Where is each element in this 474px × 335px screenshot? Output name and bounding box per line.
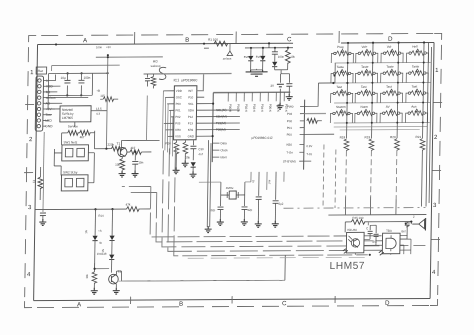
wire inner-top supply rail [38,42,434,44]
svg-text:P00: P00 [287,133,293,137]
svg-text:P04-K: P04-K [260,104,264,112]
ground G9 [205,226,212,232]
wire bus shadow [188,256,368,259]
svg-text:Flat: Flat [38,69,43,73]
resistor R1 on top rail [208,38,228,47]
svg-text:10k: 10k [85,274,89,279]
node matrix junction r2c0 [346,102,348,104]
svg-text:GND: GND [188,134,194,138]
resistor R11 [183,140,188,160]
svg-text:T1: T1 [116,142,120,146]
svg-text:10k: 10k [290,55,295,59]
ground G15 [91,288,98,294]
wire long drop to gnd [207,140,211,227]
ground G7 [182,160,189,166]
svg-text:ST-BY(M): ST-BY(M) [283,159,296,163]
wire bus line 1 [121,185,412,237]
ground G12 [255,221,262,227]
svg-text:220k: 220k [107,143,114,147]
svg-text:Tast: Tast [361,85,367,89]
svg-text:5V6: 5V6 [256,55,262,59]
node matrix junction r2c2 [397,102,399,104]
switch S13 Stumm [330,105,352,123]
wire bus line 3 [162,149,427,247]
wire bus stubs [212,143,219,157]
capacitor C12 [400,222,410,240]
ground G6 [173,167,180,173]
svg-text:C: C [287,36,292,43]
resistor R12 [125,203,139,212]
switch S7 Taste3 [381,65,403,83]
svg-text:Tast: Tast [386,85,392,89]
svg-text:Aus: Aus [411,105,417,109]
ground G18 [379,251,384,256]
svg-text:Vol+: Vol+ [361,45,367,49]
wire IC1 right pins [196,97,240,136]
wire y64 branch [52,65,120,71]
svg-text:Data: Data [220,141,227,145]
wire IC1 left pins [163,91,175,137]
node matrix junction r1c2 [397,82,399,84]
svg-text:P21(M): P21(M) [216,121,226,125]
svg-text:D: D [388,36,393,43]
svg-text:4k7: 4k7 [267,180,271,185]
wire T1 nets [94,130,159,148]
svg-text:Ident: Ident [220,155,227,159]
svg-text:R19: R19 [365,135,371,139]
svg-text:4MHz: 4MHz [226,186,234,190]
wire Q2 base [95,263,110,269]
diode D5 [84,209,98,263]
svg-text:P01: P01 [287,126,293,130]
switch S14 Norm [355,105,377,123]
node matrix junction r3c1 [371,122,373,124]
svg-text:R18: R18 [340,135,346,139]
wire ir block nets [355,222,411,255]
svg-text:P02-K: P02-K [244,104,248,112]
ground G3 [246,70,268,77]
svg-text:Taste: Taste [361,65,369,69]
svg-text:SW1 Netz: SW1 Netz [64,140,78,144]
svg-text:T-01: T-01 [306,152,312,156]
wire base rail y208 [35,208,150,211]
svg-text:D: D [385,300,390,307]
svg-text:SDA: SDA [188,108,194,112]
wire key matrix feed [318,82,335,84]
svg-text:PW0: PW0 [287,105,294,109]
node matrix junction r1c3 [422,82,424,84]
svg-text:C: C [282,300,287,307]
ground G17 [343,249,348,254]
amplifier U3 [382,229,400,254]
node matrix junction r3c2 [396,122,398,124]
svg-text:10µ: 10µ [185,155,190,159]
wire CN1 pin nets [43,74,89,126]
ground G11 [241,219,248,225]
ground G13 [272,221,279,227]
svg-text:1N: 1N [84,230,88,234]
pin 5 stub riser [143,74,231,91]
ground G8 [189,171,196,177]
resistor R4 [80,130,91,139]
svg-text:Tast: Tast [336,85,342,89]
svg-text:47k: 47k [126,203,131,207]
node matrix junction r2c3 [422,102,424,104]
svg-text:Taste: Taste [412,65,420,69]
transistor T1 [116,142,127,157]
svg-text:SDA(M): SDA(M) [216,115,227,119]
wire dashed risers [322,145,325,209]
svg-text:Hell: Hell [412,45,418,49]
transistor Q2 [109,270,122,285]
svg-text:Stumm: Stumm [336,105,346,109]
svg-text:0.9V: 0.9V [306,144,312,148]
capacitor C1 10u [60,73,70,95]
crystal Q1 4MHz [221,186,245,199]
ground G10 [217,219,224,225]
diode D1 zener [244,48,254,70]
switch S4 Hell [406,44,428,62]
wire x147 drop [146,95,149,140]
regulator U5 Netzteil box [60,106,91,122]
wire opto nets [54,149,95,183]
resistor R15 [151,74,156,89]
wire inner-bottom rail [34,298,430,300]
svg-text:P02: P02 [175,115,181,119]
switch S6 Taste2 [355,65,377,83]
switch S10 Tast 6 [355,85,377,103]
svg-text:P03: P03 [175,121,181,125]
wire ir top rail [345,222,412,233]
svg-text:1N4148: 1N4148 [97,252,107,256]
switch S5 Taste1 [331,65,353,83]
resistor R9 [115,157,125,171]
capacitor C13 [366,225,373,239]
wire matrix bottom returns [334,127,428,130]
switch S3 Vol- [381,45,403,63]
wire misc verticals [251,172,284,190]
svg-text:B: B [179,301,183,308]
diode D4 [190,162,195,172]
svg-text:OSC: OSC [176,95,182,99]
svg-text:an/aus: an/aus [223,57,232,61]
wire right solid return [328,214,426,217]
svg-text:Taste: Taste [337,65,345,69]
resistor R2 [285,48,295,70]
svg-text:P10: P10 [188,95,194,99]
wire crystal risers [221,182,245,206]
capacitor C10 [272,172,284,222]
jumper S-curl [159,67,166,79]
switch S9 Tast 5 [331,85,353,103]
diode D6 [109,209,115,255]
capacitor C8 [241,207,252,220]
node matrix junction r1c1 [371,82,373,84]
svg-text:4k7: 4k7 [80,135,85,139]
resistor R7 [106,143,122,151]
svg-text:+B: +B [96,89,100,93]
svg-text:P00: P00 [176,102,182,106]
capacitor C2 100n [78,73,90,95]
resistor R13 [85,263,97,289]
node A arrow marker [223,44,233,61]
wire matrix rows [335,61,431,64]
svg-text:P12: P12 [188,115,194,119]
svg-text:µPD1986C-012: µPD1986C-012 [252,136,273,140]
svg-text:+5V: +5V [106,45,111,49]
ground G14 [39,219,46,225]
optocoupler U7 [61,170,88,191]
switch S12 Tast 8 [406,84,428,102]
wire top-left rail [48,73,107,95]
svg-text:IC1: IC1 [173,78,179,82]
wire zener bottoms [251,69,290,74]
wire inner-left rail [34,45,38,301]
wire right bus vertical [212,93,213,163]
svg-text:22p: 22p [210,208,215,212]
svg-text:Service: Service [68,124,79,128]
resistor R19 [364,135,374,150]
svg-text:LHM57: LHM57 [330,261,366,272]
svg-text:C30: C30 [198,147,204,151]
svg-text:+A: +A [98,229,102,233]
svg-text:GND: GND [45,124,53,128]
svg-text:SCL(M): SCL(M) [216,108,227,112]
svg-text:4n7: 4n7 [198,152,203,156]
optocoupler U6 [62,140,89,161]
svg-text:T-On: T-On [286,151,293,155]
svg-text:100n: 100n [83,76,90,80]
svg-text:Clock: Clock [220,148,228,152]
svg-text:Tast: Tast [412,85,418,89]
svg-text:IS1U60: IS1U60 [347,228,357,232]
wire mid rail y56 [94,57,162,149]
svg-text:B: B [185,37,189,44]
resistor R16 [100,94,118,102]
op-amp U1 microcontroller IC1 [173,78,199,140]
node matrix junction r0c3 [423,62,425,64]
capacitor C5 [132,152,144,171]
node matrix junction r3c0 [346,122,348,124]
wire Q2 collector run [116,255,285,281]
svg-text:4.3: 4.3 [96,112,100,116]
svg-text:10k: 10k [115,163,120,167]
svg-text:C: C [366,226,368,230]
svg-text:5V6: 5V6 [244,55,250,59]
ground G16 [113,288,120,294]
svg-text:R21: R21 [416,135,422,139]
svg-text:10n: 10n [138,160,143,164]
svg-text:SW2 St.by: SW2 St.by [63,170,78,174]
wire matrix columns [347,43,348,127]
switch S1 Prog [331,45,353,63]
capacitor C14 [372,225,379,243]
svg-text:4k7: 4k7 [130,146,135,150]
wire osc feed [199,181,251,183]
svg-text:Norm: Norm [361,105,369,109]
node matrix junction r0c0 [347,62,349,64]
node dots on rails [55,43,57,45]
wire bus line 4 [168,147,413,251]
svg-text:R45 100: R45 100 [352,216,364,220]
wire bus line 5 [174,147,370,256]
resistor R10 [174,140,179,168]
wire CN2 nets [304,83,335,161]
resistor R5 [32,167,43,200]
svg-text:SCL: SCL [188,102,194,106]
svg-text:22p: 22p [247,208,252,212]
svg-text:P13: P13 [188,121,194,125]
capacitor C7 [210,207,223,220]
wire CN2 P03 [304,113,325,115]
svg-text:VSS: VSS [175,134,181,138]
capacitor C6 [190,140,196,160]
wire bus line 2 [128,191,401,242]
capacitor C3 with diode D3 [272,48,285,70]
ground G5 [286,94,293,100]
wire service net [61,133,94,145]
svg-text:T2: T2 [118,270,122,274]
svg-text:2µ2: 2µ2 [372,239,377,243]
wire top-center risers [204,43,293,48]
svg-text:Vol-: Vol- [387,45,392,49]
diode D2 zener [256,48,266,70]
svg-text:2µ2: 2µ2 [401,229,406,233]
svg-text:R14: R14 [98,214,104,218]
svg-text:wakeup: wakeup [151,64,161,68]
capacitor C15 [145,74,150,87]
speaker LS1 [412,215,426,231]
wire left pin bundle [162,91,173,157]
resistor R6 [307,118,322,123]
svg-text:µPD1986C: µPD1986C [181,78,198,82]
ground G1 [118,171,125,177]
svg-text:R1 100: R1 100 [208,38,218,42]
node matrix junction r0c1 [372,62,374,64]
svg-text:100n: 100n [278,55,285,59]
switch S16 Aus [406,105,428,123]
capacitor C11 [40,132,47,220]
node matrix junction r1c0 [346,82,348,84]
capacitor C4 [286,74,292,95]
wire U5 nets [48,95,107,127]
wire inner-right rail [430,42,434,298]
switch S15 AV [380,105,402,123]
svg-text:P01: P01 [175,108,181,112]
resistor R20 [390,135,400,150]
svg-text:1k: 1k [32,179,36,183]
svg-text:LM7805: LM7805 [62,116,73,120]
resistor R8 [127,146,152,155]
svg-text:10µ: 10µ [60,76,65,80]
diode D7 [101,249,115,273]
svg-text:KR0: KR0 [175,128,181,132]
svg-text:R20: R20 [390,135,396,139]
resistor R21 [415,135,425,150]
node matrix junction r3c3 [422,122,424,124]
connector CN2 [283,100,314,170]
resistor R3 Service [68,124,79,135]
svg-text:115: 115 [100,94,105,98]
wire matrix right verticals [426,42,432,206]
ground G4 [277,103,284,109]
connector CN1 flat cable header [35,67,56,131]
svg-text:P01-K: P01-K [236,104,240,112]
svg-text:VDD: VDD [176,89,182,93]
wire matrix column drops [347,126,423,138]
wire bus ticks [131,296,233,301]
switch S8 Taste4 [406,64,428,82]
wire node dots CN1 [66,72,68,74]
svg-text:TBA: TBA [386,229,392,233]
resistor R22 [351,216,365,224]
svg-text:Prog: Prog [337,45,344,49]
wire dash-dot return [284,207,426,210]
svg-text:P20(M): P20(M) [216,128,226,132]
svg-text:P03: P03 [287,112,293,116]
svg-text:INT: INT [188,89,193,93]
switch S11 Tast 7 [380,85,402,103]
node matrix junction r0c2 [397,62,399,64]
svg-text:2µ2: 2µ2 [279,202,284,206]
resistor R18 [339,135,349,150]
svg-text:P02: P02 [287,119,293,123]
capacitor C9 [255,172,262,222]
svg-text:P03-K: P03-K [252,104,256,112]
node matrix junction r2c1 [371,102,373,104]
svg-text:KR2: KR2 [188,128,194,132]
svg-text:MC/: MC/ [153,59,158,63]
svg-text:P00-K: P00-K [228,104,232,112]
svg-text:13.5: 13.5 [96,107,102,111]
ground G2 [131,171,138,177]
svg-text:100n: 100n [96,45,103,49]
wire bottom return A [117,279,284,282]
svg-text:KB0: KB0 [286,143,292,147]
battery BT1 3V [270,74,284,104]
wire scan bus P0x [213,91,290,93]
svg-text:R26: R26 [165,141,171,145]
svg-text:Taste: Taste [386,65,394,69]
switch S2 Vol+ [356,45,378,63]
svg-text:P05-K: P05-K [268,104,272,112]
IR receiver U2 IS1U60 [346,228,364,253]
